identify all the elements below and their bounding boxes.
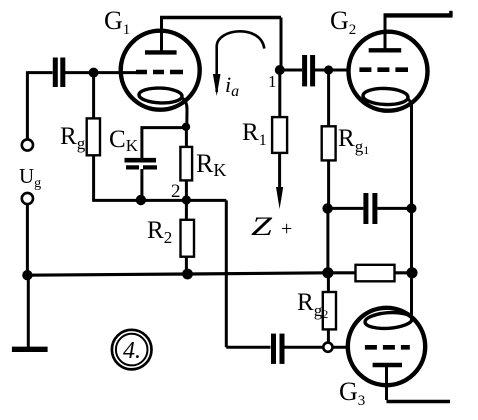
svg-text:4.: 4. — [123, 338, 141, 364]
wire Rg lead top — [92, 73, 95, 201]
capacitor coupling C1-2 — [305, 55, 313, 86]
wire Rg1 node to bus — [326, 208, 329, 272]
node R2 to bus — [182, 269, 193, 280]
wire G2 anode top bar — [384, 13, 453, 17]
node 1 — [275, 65, 285, 75]
capacitor input coupling — [55, 58, 63, 88]
wire Rk leads — [185, 127, 188, 201]
node G2 grid junction — [324, 65, 333, 74]
capacitor to G3 grid — [274, 334, 283, 364]
wire node1 to coupling cap — [280, 69, 302, 72]
ground — [12, 347, 48, 352]
tube G1 — [121, 18, 200, 127]
arrow to Z — [276, 187, 283, 209]
resistor Rg — [87, 118, 100, 155]
resistor R2 — [181, 220, 195, 257]
tube G2 — [349, 15, 428, 115]
ground bus — [27, 273, 412, 275]
node right mid — [407, 203, 417, 213]
wire to bottom cap — [226, 346, 270, 349]
node cathode G1 — [182, 123, 190, 131]
node grid junction G1 — [89, 68, 99, 78]
node bus Rg2 — [322, 267, 333, 278]
wire node2 to G3 grid vertical — [225, 200, 228, 347]
terminal lower input — [22, 193, 33, 204]
wire G1 anode top horizontal — [160, 16, 281, 19]
wire lower terminal to ground bus — [26, 204, 29, 275]
resistor R1 — [272, 117, 287, 153]
svg-text:2: 2 — [171, 181, 181, 202]
tube G3 — [348, 308, 425, 400]
current loop ia — [213, 31, 264, 96]
wire input left vertical — [26, 71, 29, 139]
wire input top horizontal — [27, 71, 52, 74]
wire R2 leads — [185, 200, 188, 273]
node Ck junction — [136, 195, 146, 205]
wire top bar end tick — [449, 11, 452, 16]
figure number 4 — [112, 330, 152, 370]
wire cathode bus horizontal — [92, 199, 226, 202]
wire R1 lead — [278, 70, 281, 117]
terminal upper input — [22, 139, 33, 150]
node bus right — [406, 267, 417, 278]
wire ground stem — [27, 275, 30, 347]
wire cap to grid junction — [65, 71, 136, 74]
resistor series bus — [356, 265, 395, 282]
svg-text:1: 1 — [268, 72, 277, 91]
svg-text:Z: Z — [251, 213, 273, 242]
capacitor Ck — [125, 160, 158, 167]
wire right vertical G2 cathode down — [410, 104, 413, 322]
wire cathode node to Ck — [141, 126, 187, 129]
wire mid cap left — [329, 207, 364, 210]
resistor Rg2 — [323, 292, 336, 329]
wire cap to grid node — [285, 346, 324, 349]
resistor Rk — [180, 147, 192, 181]
wire Rg2 leads — [327, 273, 330, 343]
node Rg1 bottom — [322, 203, 332, 213]
wire Ck upper lead — [140, 126, 143, 158]
wire Ck lower lead — [140, 169, 143, 200]
wire grid node to G3 — [332, 346, 350, 349]
wire mid cap right — [377, 207, 412, 210]
svg-text:+: + — [281, 218, 292, 240]
wire top to node 1 — [280, 18, 283, 71]
capacitor G2 cathode feedback — [366, 193, 375, 224]
resistor Rg1 — [322, 126, 336, 160]
wire Rg1 leads — [327, 70, 330, 208]
node 2 — [182, 195, 191, 204]
wire G3 anode bottom — [387, 400, 451, 404]
node G3 grid open — [323, 343, 332, 352]
node bus left — [22, 270, 32, 280]
wire cap to G2 grid — [315, 69, 350, 72]
wire R1 to arrow — [278, 153, 281, 200]
